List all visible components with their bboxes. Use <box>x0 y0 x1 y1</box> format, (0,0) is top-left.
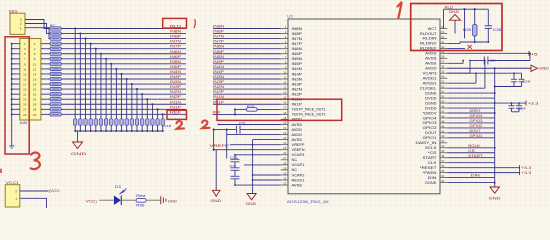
U1 pin 38 START <box>423 154 448 160</box>
wire WCT to RLD <box>443 9 445 28</box>
svg-text:AVSS1: AVSS1 <box>423 81 437 85</box>
svg-text:GPIO3: GPIO3 <box>470 119 483 123</box>
wire R90 to GND <box>146 199 161 201</box>
ground GND (RLDOUT) <box>449 10 461 33</box>
wire C24 rail <box>512 111 520 113</box>
svg-text:NC: NC <box>292 168 298 172</box>
wire DGND bottom <box>447 182 495 184</box>
svg-text:42: 42 <box>441 134 444 138</box>
svg-text:45: 45 <box>441 119 444 123</box>
wire VCAP3 row <box>447 72 521 74</box>
svg-text:IN4N: IN4N <box>170 70 182 74</box>
svg-text:44: 44 <box>441 124 444 128</box>
svg-text:14: 14 <box>33 72 37 76</box>
wire C8 to +5 rail <box>488 60 530 62</box>
connector VCC1 <box>5 181 20 207</box>
svg-text:DIN: DIN <box>471 174 481 178</box>
svg-text:DGND: DGND <box>425 181 437 185</box>
svg-text:GPIO1: GPIO1 <box>423 136 437 140</box>
svg-text:IN6P: IN6P <box>213 50 225 54</box>
wire capacitor ground rail <box>75 130 163 132</box>
svg-text:IN1P: IN1P <box>292 103 304 107</box>
svg-text:64: 64 <box>441 25 444 29</box>
svg-text:VREFP: VREFP <box>292 143 306 147</box>
svg-text:38: 38 <box>441 154 444 158</box>
svg-text:DAISY_IN: DAISY_IN <box>416 141 438 145</box>
svg-text:49: 49 <box>441 99 444 103</box>
wire EEG pin1 to IN8P row <box>25 28 50 39</box>
U1 pin 43 DOUT <box>425 129 447 135</box>
svg-text:IN3P: IN3P <box>213 80 225 84</box>
svg-text:55: 55 <box>441 70 444 74</box>
wire vertical to GND <box>213 130 215 150</box>
resistor R1 element 13 <box>50 87 61 90</box>
svg-text:RLDIN: RLDIN <box>423 37 438 41</box>
capacitor C7 <box>99 119 102 125</box>
svg-text:AVSS: AVSS <box>292 138 303 142</box>
ground GND (filter rail) <box>71 131 87 156</box>
wire VCC1 pin1 <box>20 198 47 208</box>
wire net RLD <box>61 28 186 30</box>
wire capacitor drop IN8N <box>79 34 81 119</box>
resistor R1 element 12 <box>50 82 61 85</box>
wire net IN1P <box>61 108 186 110</box>
wire IN6N to U1 <box>213 48 281 50</box>
svg-text:IN3N: IN3N <box>213 75 225 79</box>
svg-text:2: 2 <box>15 190 17 194</box>
capacitor C9 <box>231 175 240 177</box>
svg-text:IN3N: IN3N <box>292 77 303 81</box>
wire net IN2N <box>61 93 186 95</box>
svg-text:CLKSEL: CLKSEL <box>420 86 437 90</box>
U1 pin 44 GPIO2 <box>423 124 448 130</box>
wire DVDD row2 <box>447 107 495 109</box>
U1 pin 7 IN5N <box>281 55 303 61</box>
wire DVDD row <box>447 97 495 99</box>
svg-text:+3.3: +3.3 <box>521 171 531 175</box>
U1 pin 6 IN6P <box>281 50 303 56</box>
wire IN1P to U1 <box>213 103 281 105</box>
U1 pin 64 WCT <box>428 25 448 31</box>
U1 pin 22 AVDD <box>281 131 303 137</box>
capacitor C11 <box>120 119 123 125</box>
wire IN4N to U1 <box>213 68 281 70</box>
svg-text:61: 61 <box>441 40 444 44</box>
wire connector pin 20 to resistor <box>41 88 50 90</box>
junction node IN6N <box>100 53 102 55</box>
svg-text:51: 51 <box>441 90 444 94</box>
U1 pin 24 VREFP <box>281 141 306 147</box>
svg-text:28: 28 <box>283 161 286 165</box>
resistor R1 element 7 <box>50 57 61 60</box>
svg-text:RLDINV: RLDINV <box>420 42 438 46</box>
annotation digit 1 <box>398 2 402 18</box>
resistor R90 <box>136 194 146 208</box>
junction node IN2N <box>141 93 143 95</box>
capacitor C15 <box>140 119 143 125</box>
wire mesh v1 <box>462 61 464 64</box>
svg-text:AIN: AIN <box>20 121 28 125</box>
svg-text:35: 35 <box>441 169 444 173</box>
wire capacitor drop IN7P <box>95 49 97 119</box>
resistor R1 element 6 <box>50 52 61 55</box>
wire IN5P to U1 <box>213 63 281 65</box>
U1 pin 54 AVDD1 <box>423 75 448 81</box>
resistor R1 element 5 <box>50 47 61 50</box>
capacitor C19 <box>161 119 164 125</box>
svg-text:21: 21 <box>23 93 27 97</box>
svg-text:IN4N: IN4N <box>292 67 303 71</box>
U1 pin 62 RLDIN <box>423 35 448 41</box>
svg-text:AVSS: AVSS <box>292 123 303 127</box>
svg-text:GPIO2: GPIO2 <box>423 126 437 130</box>
junction node IN8N <box>79 33 81 35</box>
capacitor C3 <box>79 119 82 125</box>
wire EEG pin2 to IN8N row <box>25 24 50 34</box>
capacitor C6 <box>94 119 97 125</box>
svg-text:IN5P: IN5P <box>213 60 225 64</box>
power +3.3 (PWDN) <box>447 172 519 174</box>
wire connector pin 12 to resistor <box>41 68 50 70</box>
svg-text:27: 27 <box>23 108 27 112</box>
U1 pin 48 DVDD <box>425 104 447 110</box>
wire net IN7N <box>61 43 186 45</box>
wire CS <box>447 152 495 154</box>
svg-text:VREFN: VREFN <box>292 148 306 152</box>
wire connector pin 7 <box>12 58 20 60</box>
svg-text:VCAP3: VCAP3 <box>423 72 437 76</box>
svg-text:VCC: VCC <box>86 199 96 203</box>
wire GPIO4 <box>447 117 495 119</box>
wire net IN7P <box>61 48 186 50</box>
wire net IN1N <box>61 103 186 105</box>
svg-text:NC: NC <box>292 158 298 162</box>
svg-text:*PWDN: *PWDN <box>423 171 438 175</box>
svg-text:IN2N: IN2N <box>292 87 303 91</box>
wire connector pin 22 to resistor <box>41 93 50 95</box>
wire IN1N to U1 <box>213 98 281 100</box>
wire RLDREF stub <box>447 47 465 49</box>
annotation red tick left edge <box>0 169 2 173</box>
svg-text:12: 12 <box>283 80 286 84</box>
svg-text:IN7N: IN7N <box>170 40 182 44</box>
U1 pin 28 VCAP1 <box>281 161 305 167</box>
svg-text:IN4P: IN4P <box>213 70 225 74</box>
svg-text:IN2P: IN2P <box>292 92 304 96</box>
svg-text:IN8N: IN8N <box>170 30 182 34</box>
U1 pin 13 IN2N <box>281 86 303 92</box>
svg-text:30: 30 <box>283 171 286 175</box>
svg-text:C30: C30 <box>493 28 502 32</box>
ground AINCOM terminator <box>9 145 14 147</box>
U1 pin 41 DAISY_IN <box>416 139 448 145</box>
wire capacitor drop REF <box>162 114 164 118</box>
wire net IN6N <box>61 53 186 55</box>
wire IN3N to U1 <box>213 78 281 80</box>
U1 pin 39 *CS <box>428 149 448 155</box>
svg-text:IN4P: IN4P <box>292 72 304 76</box>
wire CLK row <box>447 162 495 164</box>
junction node IN3P <box>136 88 138 90</box>
U1 pin 37 CLK <box>428 159 448 165</box>
wire mesh v3 <box>475 73 477 83</box>
svg-text:START: START <box>468 154 483 158</box>
U1 pin 19 AVDD <box>281 116 303 122</box>
svg-text:53: 53 <box>441 80 444 84</box>
svg-text:50: 50 <box>441 94 444 98</box>
wire IN8N to U1 <box>213 28 281 30</box>
wire connector pin 10 to resistor <box>41 63 50 65</box>
U1 pin 46 GPIO4 <box>423 114 448 120</box>
U1 pin 57 AVSS <box>425 60 447 66</box>
junction node IN3N <box>131 83 133 85</box>
wire REF to TESTN <box>235 113 281 115</box>
capacitor C18 <box>156 119 159 125</box>
svg-text:DRDY: DRDY <box>470 109 482 113</box>
U1 pin 36 *RESET <box>420 164 447 170</box>
U1 pin 40 SCLK <box>425 144 447 150</box>
U1 pin 14 IN2P <box>281 91 303 97</box>
junction node IN4P <box>126 78 128 80</box>
U1 pin 32 AVSS <box>281 181 303 187</box>
U1 pin 21 AVDD <box>281 126 303 132</box>
svg-text:37: 37 <box>441 159 444 163</box>
wire START <box>447 157 495 159</box>
wire IN6P to U1 <box>213 53 281 55</box>
wire R19 to TESTP <box>257 108 281 110</box>
svg-text:29: 29 <box>283 166 286 170</box>
svg-text:AVSS: AVSS <box>292 183 303 187</box>
svg-text:IN6P: IN6P <box>292 52 304 56</box>
ground GND (right) <box>447 67 531 69</box>
svg-text:11: 11 <box>284 75 287 79</box>
U1 pin 63 RLDOUT <box>420 30 447 36</box>
resistor R1 element 15 <box>50 98 61 101</box>
resistor R1 element 1 <box>50 27 61 30</box>
svg-text:IN3P: IN3P <box>170 85 182 89</box>
wire AVSS row <box>219 124 281 126</box>
svg-text:26: 26 <box>33 103 37 107</box>
annotation box REF <box>167 110 187 119</box>
resistor R1 element 18 <box>50 113 61 116</box>
wire net IN8N <box>61 33 186 35</box>
svg-text:24: 24 <box>33 98 37 102</box>
wire SCLK <box>447 147 495 149</box>
svg-text:IN1P: IN1P <box>213 100 225 104</box>
wire RLDIN drop <box>464 9 466 38</box>
svg-text:ADS1298_PAG_64: ADS1298_PAG_64 <box>287 200 329 204</box>
wire junction link <box>234 109 236 114</box>
svg-text:27: 27 <box>283 156 286 160</box>
wire connector pin 4 to resistor <box>41 48 50 50</box>
capacitor C10 <box>115 119 118 125</box>
svg-text:GPIO4: GPIO4 <box>423 116 437 120</box>
svg-text:{VCC: {VCC <box>49 189 60 193</box>
junction node IN6P <box>105 58 107 60</box>
wire IN2N to U1 <box>213 88 281 90</box>
wire CLKSEL row <box>447 87 485 89</box>
resistor R1 element 9 <box>50 67 61 70</box>
wire AVDD to C8 <box>470 60 484 62</box>
svg-text:IN4P: IN4P <box>170 75 182 79</box>
svg-text:GPIO3: GPIO3 <box>423 121 437 125</box>
svg-text:GND: GND <box>489 197 502 201</box>
wire AVSS row2 <box>253 139 281 141</box>
annotation x mark <box>468 45 472 49</box>
junction node IN1N <box>151 103 153 105</box>
wire connector pin 16 to resistor <box>41 78 50 80</box>
svg-text:1: 1 <box>15 197 17 201</box>
svg-text:29: 29 <box>23 113 27 117</box>
svg-text:*DRDY: *DRDY <box>423 111 438 115</box>
U1 pin 58 AVSS <box>425 55 447 61</box>
svg-text:52: 52 <box>441 85 444 89</box>
wire net REF <box>61 113 186 115</box>
svg-text:11: 11 <box>23 67 26 71</box>
capacitor C5 <box>89 119 92 125</box>
svg-text:20: 20 <box>33 88 37 92</box>
resistor R1 element 11 <box>50 77 61 80</box>
wire RESV1 <box>253 179 281 181</box>
wire capacitor drop IN5N <box>110 64 112 119</box>
svg-text:17: 17 <box>283 106 286 110</box>
wire connector pin 28 to resistor <box>41 108 50 110</box>
junction node IN8P <box>84 38 86 40</box>
wire DRDY <box>447 112 495 114</box>
wire VCAP4 <box>235 155 281 159</box>
svg-text:IN2P: IN2P <box>170 95 182 99</box>
junction node IN1P <box>157 108 159 110</box>
svg-text:R90: R90 <box>136 204 144 208</box>
svg-text:R20: R20 <box>463 28 471 32</box>
svg-text:VCAP2: VCAP2 <box>292 173 305 177</box>
U1 pin 27 NC <box>281 156 298 162</box>
wire GPIO2 <box>447 127 495 129</box>
svg-text:18: 18 <box>33 82 37 86</box>
U1 pin 3 IN7N <box>281 35 303 41</box>
U1 pin 1 IN8N <box>281 25 303 31</box>
wire connector pin 23 <box>12 98 20 100</box>
svg-text:21: 21 <box>283 126 286 130</box>
U1 pin 51 DGND <box>425 90 447 96</box>
capacitor C30 <box>485 9 502 42</box>
capacitor C12 <box>125 119 128 125</box>
svg-text:30: 30 <box>33 113 37 117</box>
wire capacitor drop IN6N <box>100 54 102 119</box>
svg-text:IN8P: IN8P <box>213 30 225 34</box>
svg-text:20: 20 <box>283 121 286 125</box>
U1 pin 16 IN1P <box>281 101 303 107</box>
svg-text:DIN: DIN <box>428 176 438 180</box>
wire connector pin 21 <box>12 93 20 95</box>
svg-text:*CS: *CS <box>428 151 438 155</box>
svg-text:VCAP4: VCAP4 <box>292 153 305 157</box>
svg-text:+3.3: +3.3 <box>528 101 539 105</box>
wire net IN3P <box>61 88 186 90</box>
capacitor C4 <box>84 119 87 125</box>
svg-text:22: 22 <box>283 131 286 135</box>
svg-text:IN8N: IN8N <box>213 25 225 29</box>
svg-text:23: 23 <box>23 98 27 102</box>
svg-text:*RESET: *RESET <box>420 166 437 170</box>
capacitor C14 <box>135 119 138 125</box>
svg-text:GPIO1: GPIO1 <box>470 134 483 138</box>
capacitor C26a <box>513 73 515 79</box>
svg-text:DGND: DGND <box>425 91 437 95</box>
wire connector pin 24 to resistor <box>41 98 50 100</box>
wire connector pin 13 <box>12 73 20 75</box>
U1 pin 35 *PWDN <box>423 169 448 175</box>
annotation digit 2 (right) <box>202 120 209 128</box>
annotation box 1 <box>411 4 502 51</box>
svg-text:AVSS: AVSS <box>425 57 437 61</box>
wire net IN6P <box>61 58 186 60</box>
wire connector pin 11 <box>12 68 20 70</box>
svg-text:40: 40 <box>441 144 444 148</box>
svg-text:C24: C24 <box>517 107 526 111</box>
svg-text:IN6N: IN6N <box>170 50 182 54</box>
svg-text:IN5N: IN5N <box>170 60 182 64</box>
wire AVDD row with capacitor C6 <box>214 129 236 131</box>
svg-text:IN2P: IN2P <box>213 90 225 94</box>
svg-text:GND: GND <box>211 199 222 203</box>
svg-text:U1: U1 <box>287 15 293 19</box>
svg-text:60: 60 <box>441 45 444 49</box>
wire capacitor drop RLD <box>74 29 76 119</box>
svg-text:39: 39 <box>441 149 444 153</box>
resistor R1 element 2 <box>50 32 61 35</box>
wire net IN8P <box>61 38 186 40</box>
U1 pin 34 DIN <box>428 174 448 180</box>
wire IN7N to U1 <box>213 38 281 40</box>
wire VCAP2 <box>253 174 281 176</box>
wire IN7P to U1 <box>213 43 281 45</box>
ground GND (led) <box>161 196 178 204</box>
annotation box 3 (odd pins) <box>5 37 29 154</box>
svg-text:IN3P: IN3P <box>292 82 304 86</box>
wire capacitor drop IN8P <box>85 39 87 119</box>
resistor R1 element 17 <box>50 108 61 111</box>
svg-text:+5: +5 <box>531 52 538 56</box>
wire IN2P to U1 <box>213 93 281 95</box>
svg-text:IN3N: IN3N <box>170 80 182 84</box>
U1 pin 15 IN1N <box>281 96 303 102</box>
wire connector pin 14 to resistor <box>41 73 50 75</box>
svg-text:TESTP_PACE_OUT1: TESTP_PACE_OUT1 <box>292 108 326 112</box>
resistor R1 element 3 <box>50 37 61 40</box>
svg-text:IN5N: IN5N <box>292 57 303 61</box>
svg-text:AVDD: AVDD <box>292 133 303 137</box>
capacitor C13 <box>130 119 133 125</box>
wire DGND row <box>447 92 495 94</box>
wire connector pin 8 to resistor <box>41 58 50 60</box>
svg-text:33: 33 <box>441 179 444 183</box>
U1 pin 11 IN3N <box>281 75 303 81</box>
svg-text:41: 41 <box>441 139 444 143</box>
svg-text:GND: GND <box>71 152 87 156</box>
wire capacitor drop IN7N <box>90 44 92 119</box>
svg-text:IN5N: IN5N <box>213 55 225 59</box>
svg-text:56: 56 <box>441 65 444 69</box>
wire net IN5P <box>61 68 186 70</box>
wire VCC1 pin2 <box>20 190 49 192</box>
capacitor C9 <box>110 119 113 125</box>
U1 pin 59 AVDD <box>425 50 447 56</box>
svg-text:IN7P: IN7P <box>292 42 304 46</box>
svg-text:34: 34 <box>441 174 444 178</box>
wire ground bus <box>494 68 496 187</box>
svg-text:48: 48 <box>441 104 444 108</box>
